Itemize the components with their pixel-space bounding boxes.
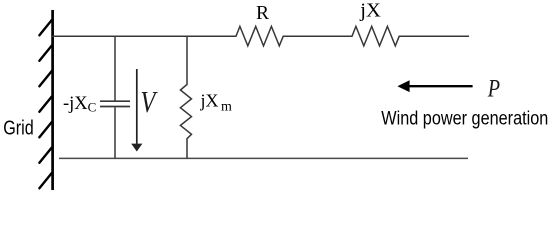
svg-text:-jXC: -jXC [63,94,96,115]
svg-text:Wind power generation: Wind power generation [381,108,548,129]
svg-text:R: R [256,3,269,24]
svg-text:Grid: Grid [3,116,33,139]
svg-text:jXm: jXm [200,91,233,115]
svg-text:P: P [487,76,500,103]
svg-text:jX: jX [359,1,381,22]
svg-text:V: V [140,84,157,119]
